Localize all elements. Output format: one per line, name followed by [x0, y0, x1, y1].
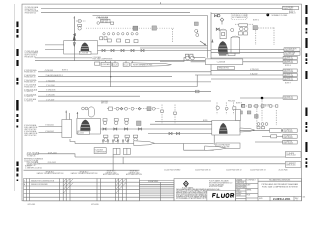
title block mid column — [236, 179, 246, 201]
FLUOR logo lettering — [213, 194, 234, 198]
node left note block — [25, 50, 39, 58]
wire right run d with junction — [240, 97, 283, 99]
wire pipe main B — [140, 47, 208, 49]
node compressor label base — [78, 131, 90, 135]
component valve cluster top right — [214, 14, 220, 17]
node banner bottom left — [134, 141, 155, 146]
node off-page connector right A — [283, 6, 299, 10]
svg-text:ISSUE No 3: ISSUE No 3 — [107, 171, 116, 173]
wire header riser — [73, 16, 75, 39]
wire right row 2 — [262, 135, 284, 137]
instrument shaded square — [137, 121, 142, 126]
left registration dash marks — [16, 22, 18, 182]
svg-text:PIPING AND INSTRUMENT DIAGRAM: PIPING AND INSTRUMENT DIAGRAM — [262, 183, 299, 186]
wire vertical joins — [112, 155, 114, 171]
svg-text:C-2002: C-2002 — [79, 133, 84, 135]
instrument bubbles small — [82, 107, 85, 110]
wire bracket leader 2 — [39, 132, 62, 134]
svg-text:DWG 26-002: DWG 26-002 — [284, 137, 293, 139]
wire dashed signal run — [241, 105, 278, 107]
instrument tag pairs row — [107, 39, 138, 43]
svg-text:1. SEE SPEC 21-SP-01: 1. SEE SPEC 21-SP-01 — [25, 168, 42, 170]
instrument tag boxes row — [104, 135, 138, 137]
wire right riser pair — [207, 16, 209, 58]
node sub label box right — [218, 66, 235, 69]
wire pipe main C — [98, 50, 212, 52]
svg-text:FROM UNIT 20: FROM UNIT 20 — [25, 56, 36, 58]
wire flare long line — [75, 156, 285, 158]
wire flare line leader — [38, 154, 75, 157]
wire main pipe bottom B — [148, 133, 213, 135]
node off-page connector right E1 — [283, 69, 297, 73]
svg-text:SET 150#: SET 150# — [101, 103, 108, 105]
node small rect right of label — [111, 22, 114, 24]
company logo diamond — [183, 180, 189, 187]
svg-text:DWG 23-001: DWG 23-001 — [284, 80, 293, 82]
node utility box 2 — [112, 63, 118, 67]
table slashes — [64, 179, 126, 193]
wire note leader — [35, 57, 92, 59]
wire dashed verticals mid — [161, 105, 163, 125]
node dashed note box — [231, 14, 247, 20]
node off-page connector right D2 — [283, 60, 297, 64]
wire right row 3 — [255, 141, 284, 143]
svg-text:DWG 22-003: DWG 22-003 — [284, 71, 293, 73]
svg-text:ISSUED FOR CONSTRUCTION: ISSUED FOR CONSTRUCTION — [31, 180, 55, 182]
svg-text:PSV-2022: PSV-2022 — [228, 101, 235, 103]
svg-text:0371-0345: 0371-0345 — [91, 204, 99, 206]
node off-page connector right B — [284, 48, 300, 52]
wire dashed verticals pkg — [216, 102, 218, 114]
left trim line — [14, 4, 16, 191]
wire header drops — [105, 61, 107, 63]
bottom number row — [258, 196, 302, 198]
wire risers above vessel — [65, 111, 67, 120]
svg-text:SIZE: SIZE — [259, 198, 263, 200]
wire mid riser — [110, 61, 112, 87]
component PSV-2002 big bell — [218, 41, 228, 51]
component diamond top right — [220, 18, 224, 22]
right side dotted column — [256, 108, 258, 126]
svg-text:2"-SC-2034: 2"-SC-2034 — [46, 85, 54, 87]
svg-text:FROM UNIT 20: FROM UNIT 20 — [24, 76, 35, 78]
svg-text:NOTE: NOTE — [203, 120, 207, 122]
wire left run 2 — [24, 74, 172, 79]
svg-text:DWG 23-002: DWG 23-002 — [284, 98, 293, 100]
node off-page connector right G — [283, 96, 297, 100]
node vent arrow — [74, 16, 76, 18]
node equipment label box bottom — [94, 148, 107, 154]
instrument tag boxes right — [238, 32, 242, 35]
node off-page connector right I — [283, 135, 298, 139]
svg-text:NONE: NONE — [236, 194, 241, 196]
svg-text:UNIT 25 NOTE 8: UNIT 25 NOTE 8 — [24, 129, 36, 131]
component slanted arrow — [200, 41, 206, 45]
svg-text:TO UNIT 24: TO UNIT 24 — [24, 101, 33, 103]
node vessel skirt label — [219, 53, 235, 55]
node utility box 1 — [95, 62, 100, 65]
wire pipe run C — [93, 15, 208, 17]
wire right run b3 — [211, 78, 283, 80]
svg-text:COMPRESSOR: COMPRESSOR — [95, 151, 107, 153]
svg-text:2"-DR-2036: 2"-DR-2036 — [46, 95, 54, 97]
component check valve in vessel — [73, 43, 75, 47]
wire dashed drop right — [273, 28, 275, 46]
node off-page connector right D1 — [283, 56, 297, 60]
node off-page connector right K tall — [285, 152, 301, 158]
valve row bottom — [103, 128, 142, 130]
svg-text:CHECKED: CHECKED — [236, 182, 245, 184]
svg-text:0: 0 — [24, 180, 25, 182]
node left bracket connector 2 — [24, 130, 38, 137]
vessel narrow above pkg — [236, 110, 241, 121]
instrument bubbles dash row — [116, 107, 119, 110]
instrument bubbles right — [240, 27, 244, 31]
svg-text:FUEL GAS COMPRESSION SYSTEM: FUEL GAS COMPRESSION SYSTEM — [262, 186, 298, 189]
node label compressor base — [79, 51, 91, 54]
svg-text:3"-WW-2035: 3"-WW-2035 — [46, 90, 55, 92]
instrument bubble left of label — [97, 22, 100, 25]
instrument TI-202 tag — [78, 24, 82, 26]
component PSV-201 — [73, 34, 76, 41]
node off-page connector right H — [283, 129, 298, 133]
svg-text:ISSUE No 4: ISSUE No 4 — [130, 171, 139, 173]
wire left run 5 — [24, 88, 211, 93]
equipment label F-2001 — [101, 62, 111, 66]
svg-text:046: 046 — [303, 197, 306, 199]
wire signal dash row bottom train — [107, 108, 160, 110]
wire vessel inlet stubs — [45, 44, 64, 46]
instrument shaded PIC 2 — [133, 26, 138, 30]
title block left fields column — [246, 179, 258, 201]
svg-text:6"-NG-2041: 6"-NG-2041 — [45, 125, 54, 127]
instrument bubbles row bottom — [104, 138, 108, 142]
wire zig to title — [70, 139, 75, 144]
wire pipes into pkg — [155, 121, 212, 123]
svg-text:NOTE 2: NOTE 2 — [253, 19, 259, 21]
svg-text:NOTE 9: NOTE 9 — [236, 102, 242, 104]
svg-text:UC-22: UC-22 — [124, 64, 129, 66]
wire relief long line — [38, 163, 285, 165]
wire vessel outlet drop — [73, 53, 75, 61]
svg-text:BY OTHERS NOTE 3: BY OTHERS NOTE 3 — [232, 17, 247, 19]
svg-text:FROM UNIT 20: FROM UNIT 20 — [25, 13, 36, 15]
node off-page connector right E2 — [283, 73, 297, 77]
svg-text:4"-PW-2031: 4"-PW-2031 — [250, 69, 259, 71]
wire pipe main A — [98, 45, 208, 47]
logo side texts — [209, 180, 233, 188]
svg-text:BROTHERS ENGINEERING CO: BROTHERS ENGINEERING CO — [209, 183, 233, 185]
wire loop connector — [193, 57, 205, 59]
svg-text:2"-VT-2037: 2"-VT-2037 — [46, 99, 54, 101]
wire riser arrow bottom — [76, 112, 78, 118]
instrument tag sq — [109, 107, 113, 111]
tick marks on long line — [102, 140, 129, 144]
svg-text:NOTE 7: NOTE 7 — [285, 82, 291, 84]
svg-text:TWR E-2101: TWR E-2101 — [283, 9, 292, 11]
svg-text:PSV-2021: PSV-2021 — [101, 101, 108, 103]
signature table — [140, 180, 175, 201]
wire long line bottom — [75, 143, 214, 145]
svg-text:DWG 26-001: DWG 26-001 — [284, 131, 293, 133]
svg-text:0: 0 — [297, 199, 298, 201]
svg-text:21-002 P&ID UNIT 20: 21-002 P&ID UNIT 20 — [195, 169, 211, 171]
node off-page connector right J — [283, 140, 298, 144]
node left label for flare line — [27, 151, 57, 157]
wire header line — [35, 60, 208, 62]
component riser pointer — [211, 39, 213, 43]
wire signal dotted row — [86, 27, 174, 29]
component compressor C-2001 bell — [81, 43, 90, 52]
vessel small dome right unit — [220, 30, 226, 39]
wire right run a1 — [211, 57, 283, 59]
wire right row 1 — [240, 130, 284, 132]
wire left run 6 — [24, 93, 140, 98]
wire signal dash — [76, 20, 86, 22]
wire signal drop — [172, 29, 174, 43]
instrument tag bubble pairs above pipe — [103, 119, 129, 125]
svg-text:FROM UNIT 20: FROM UNIT 20 — [24, 86, 35, 88]
svg-text:ISSUED FOR REVIEW: ISSUED FOR REVIEW — [31, 184, 48, 186]
svg-text:NOTE 6: NOTE 6 — [285, 65, 291, 67]
svg-text:SUPPLY NOTE 4: SUPPLY NOTE 4 — [25, 55, 37, 57]
svg-text:4"-PW-2031: 4"-PW-2031 — [45, 70, 54, 72]
svg-text:DWG 21-003: DWG 21-003 — [285, 54, 294, 56]
svg-text:FILE: FILE — [247, 195, 250, 197]
svg-text:21-MFD-A-2001: 21-MFD-A-2001 — [273, 198, 291, 201]
node reference drawings row texts — [24, 158, 288, 172]
instrument cluster right — [257, 123, 260, 126]
instrument shaded PIC — [152, 26, 157, 30]
svg-text:ISSUE No 2: ISSUE No 2 — [80, 171, 89, 173]
svg-text:FROM UNIT 20: FROM UNIT 20 — [25, 9, 36, 11]
svg-text:SET 150#: SET 150# — [101, 22, 108, 24]
svg-text:21-005 P&ID: 21-005 P&ID — [279, 169, 289, 171]
instrument PI-201 — [78, 19, 81, 22]
node bottom train labels top — [101, 101, 108, 105]
wire loop line to pkg — [184, 144, 214, 151]
table row texts — [24, 180, 55, 186]
svg-text:2"-NG-2033: 2"-NG-2033 — [46, 80, 55, 82]
instrument bubble row — [103, 33, 138, 35]
wire bracket leader 1 — [39, 125, 62, 127]
component diamonds on dash row — [120, 107, 123, 110]
component compressor C-2002 bell — [80, 120, 90, 131]
vessel V-2002 — [62, 120, 72, 138]
node compressor text block — [93, 56, 114, 61]
node small box — [239, 24, 248, 27]
wire pipe run B — [41, 11, 190, 13]
FLUOR logo box — [207, 190, 236, 201]
svg-text:UC-21: UC-21 — [113, 64, 118, 66]
instrument bubbles pkg top — [216, 106, 219, 109]
node utility box 3 — [123, 63, 129, 67]
drawing border frame — [22, 4, 302, 201]
wire pipe to right connectors — [211, 49, 284, 51]
svg-text:DWG 26-005: DWG 26-005 — [286, 165, 295, 167]
node equipment long box right — [205, 59, 243, 65]
component pipe jump loops — [185, 54, 188, 57]
svg-text:ISSUE No 1: ISSUE No 1 — [46, 171, 55, 173]
instrument stacked pair right — [194, 22, 198, 26]
node left label second line — [27, 161, 56, 167]
vessel package box — [212, 121, 240, 136]
node ECM inlet label B — [25, 10, 39, 15]
instrument shaded square right — [253, 26, 258, 30]
wire left run 7 — [24, 98, 211, 103]
node banner mid right — [205, 146, 226, 150]
node equipment banner — [131, 63, 172, 67]
component bowtie above — [216, 28, 219, 30]
node off-page connector right L tall — [285, 162, 301, 168]
vessel F-2001 package box — [64, 41, 98, 54]
svg-text:NOTE 5: NOTE 5 — [62, 70, 68, 72]
svg-text:TO UNIT 26: TO UNIT 26 — [27, 156, 36, 158]
node header text clusters — [37, 171, 143, 176]
svg-text:21-003 P&ID UNIT 22: 21-003 P&ID UNIT 22 — [226, 169, 242, 171]
node ECM inlet label A — [25, 6, 39, 11]
node pkg top texts — [228, 101, 242, 105]
svg-text:21-001 P&ID LEGEND: 21-001 P&ID LEGEND — [164, 169, 181, 171]
wire left run 3 — [24, 79, 211, 84]
node off-page connector right E3 — [283, 78, 297, 82]
instrument shaded sq — [147, 107, 151, 111]
title block main — [174, 178, 302, 201]
wire pkg drop — [213, 135, 215, 145]
svg-text:FUTURE K.O. DRUM: FUTURE K.O. DRUM — [232, 15, 248, 17]
svg-text:FROM UNIT 20: FROM UNIT 20 — [24, 72, 35, 74]
svg-text:NOTES:: NOTES: — [25, 166, 31, 168]
node right end label B — [289, 11, 296, 15]
svg-text:DWG 26-003: DWG 26-003 — [284, 143, 293, 145]
instrument pair bubbles — [186, 56, 190, 60]
svg-text:TO UNIT 24: TO UNIT 24 — [24, 96, 33, 98]
disclaimer paragraph — [176, 188, 221, 200]
wire right run b2 — [195, 74, 283, 76]
node label box PSV — [101, 19, 110, 23]
instrument shaded squares pkg — [239, 111, 243, 114]
component filter capsule — [88, 107, 94, 117]
revision table — [24, 170, 143, 201]
wire main pipe bottom A — [100, 128, 212, 130]
wire left run 1 — [24, 69, 211, 74]
svg-text:DWG 26-004: DWG 26-004 — [286, 155, 295, 157]
component compressor bell pkg — [219, 123, 228, 134]
svg-text:21-004 P&ID UNIT 23: 21-004 P&ID UNIT 23 — [250, 169, 266, 171]
svg-text:FROM UNIT 20: FROM UNIT 20 — [24, 82, 35, 84]
title lines — [262, 183, 299, 189]
svg-text:UNIT 25 NOTE 8: UNIT 25 NOTE 8 — [24, 135, 36, 137]
svg-text:TO UNIT 24: TO UNIT 24 — [24, 91, 33, 93]
node label box pkg bottom — [216, 143, 240, 149]
instrument TI-202 — [78, 27, 81, 30]
vessel compressor package box bottom-left — [77, 118, 100, 134]
component ball valve closed — [266, 14, 269, 17]
svg-text:DWG 22-004: DWG 22-004 — [284, 75, 293, 77]
instrument bubble psv — [196, 34, 199, 37]
wire dash under note box — [235, 23, 254, 25]
wire right run b1 — [211, 70, 283, 72]
right registration dash marks — [305, 5, 307, 168]
node inline box r1 — [270, 129, 282, 133]
svg-text:UNIT: UNIT — [247, 185, 251, 187]
instrument small boxes row2 — [100, 37, 103, 40]
svg-text:0371-0345: 0371-0345 — [28, 204, 36, 206]
vessel V-2001 — [231, 38, 240, 54]
valve row on pipe C — [102, 49, 144, 51]
top match tick — [160, 2, 162, 4]
node left bracket connector 1 — [24, 124, 38, 131]
wire pipe run A — [41, 7, 283, 9]
wire right run a2 — [191, 61, 284, 63]
svg-text:VENDOR PKG: VENDOR PKG — [218, 68, 229, 70]
node cell boxes bottom — [113, 148, 130, 154]
wire riser through vessel — [73, 41, 75, 54]
svg-text:4"-NG-2042: 4"-NG-2042 — [45, 131, 54, 133]
signal crossed squares row — [242, 105, 278, 108]
wire left run 4 — [24, 75, 199, 93]
table grid — [24, 179, 140, 201]
svg-text:DWG 22-002: DWG 22-002 — [284, 62, 293, 64]
node off-page connector right C — [284, 52, 300, 56]
node banner pkg — [240, 128, 255, 132]
